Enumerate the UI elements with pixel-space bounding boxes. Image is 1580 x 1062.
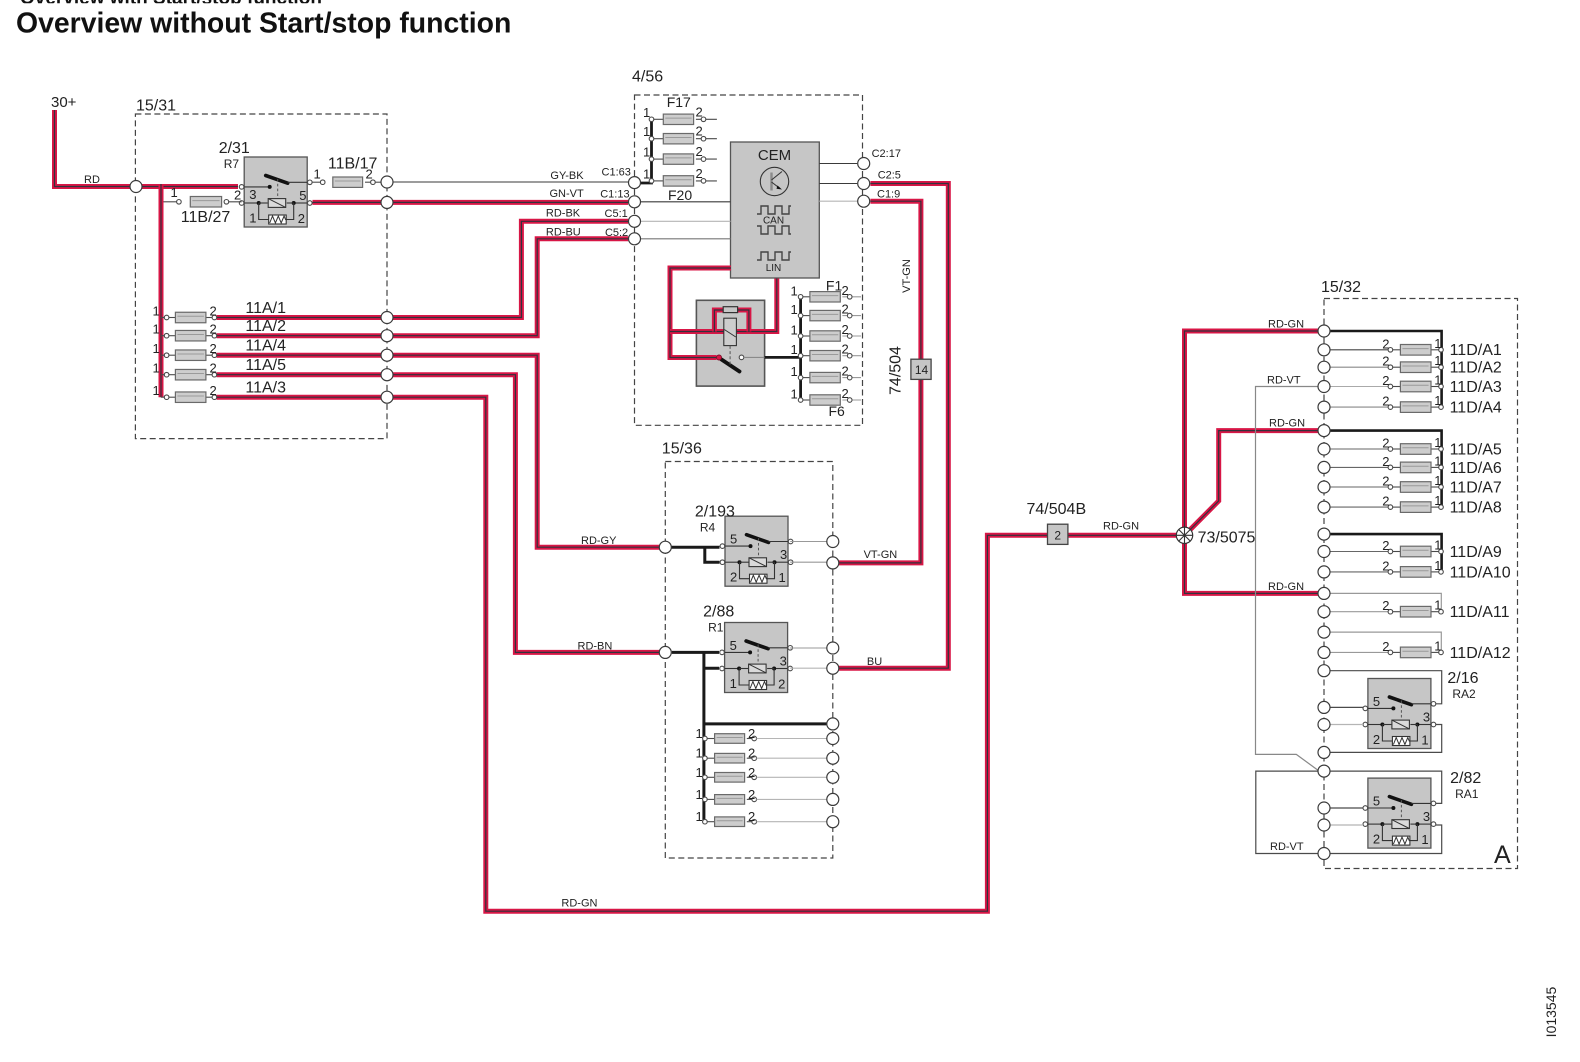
relay 2/193 R4 (720, 516, 793, 586)
svg-text:RD-GN: RD-GN (1268, 319, 1304, 331)
label RD-GY (581, 535, 617, 547)
connector 74/504B pin 2 (1027, 501, 1087, 545)
svg-text:I013545: I013545 (1543, 986, 1559, 1037)
node 15/32 left y771.1 (1318, 765, 1330, 777)
fuse 11D/A12 (1382, 638, 1443, 657)
fuse F1 (791, 283, 862, 302)
svg-text:1: 1 (643, 166, 650, 181)
svg-text:11B/27: 11B/27 (181, 209, 231, 226)
wire node to relay 2/16 pin 2 (1330, 724, 1363, 726)
svg-text:2: 2 (1382, 598, 1389, 613)
fuse 11D/A4 (1382, 393, 1443, 412)
label RD-BN (578, 641, 613, 653)
svg-text:2: 2 (1382, 474, 1389, 489)
wire fuse row 1 output to node (757, 738, 827, 740)
ignition switch (key switch) (696, 300, 764, 386)
central electronic module box 4/56 (632, 69, 863, 426)
label GN-VT (550, 188, 585, 200)
node 15/32 left y534.1 (1318, 528, 1330, 540)
fuse F18 (643, 124, 717, 144)
node 15/32 left y331 (1318, 325, 1330, 337)
svg-text:1: 1 (1434, 353, 1441, 368)
svg-text:11D/A1: 11D/A1 (1450, 342, 1502, 359)
node 15/32 left y752.4 (1318, 746, 1330, 758)
title (16, 8, 511, 40)
wire LIN line CEM to antenna (670, 279, 777, 332)
wire relay 2/16 pin 1 return (1330, 725, 1442, 753)
svg-text:2: 2 (210, 304, 217, 319)
label 2/31 (219, 140, 250, 171)
wire RD-BN node to relay 2/88 pins 5,1 and fuse bus (672, 652, 827, 821)
label F6 (829, 403, 846, 419)
fuse 11D/A6 (1382, 453, 1443, 472)
wire RD-GN junction to 11D/A11 (1185, 535, 1319, 593)
node 15/36 right y648 (827, 642, 839, 654)
svg-text:5: 5 (299, 188, 306, 203)
svg-text:2: 2 (1054, 528, 1061, 542)
svg-text:1: 1 (1434, 638, 1441, 653)
svg-text:2: 2 (748, 787, 755, 802)
label BU (867, 656, 882, 668)
wire RD-BU 11A/2 to CEM C5:2 (393, 239, 628, 336)
svg-text:1: 1 (1434, 393, 1441, 408)
wire fuse 11A/1 output (217, 315, 381, 320)
svg-text:1: 1 (314, 167, 321, 182)
svg-text:RD-BU: RD-BU (546, 227, 581, 239)
svg-text:2: 2 (696, 124, 703, 139)
label 11D/A10 (1450, 564, 1511, 581)
svg-text:5: 5 (1373, 794, 1380, 809)
svg-text:RD-VT: RD-VT (1267, 374, 1301, 386)
svg-text:15/31: 15/31 (136, 98, 176, 115)
svg-text:11D/A12: 11D/A12 (1450, 645, 1511, 662)
svg-text:1: 1 (696, 809, 703, 824)
wire fuse row 4 output to node (757, 798, 827, 800)
svg-text:1: 1 (791, 387, 798, 402)
fuse 11A/4 (153, 341, 217, 360)
label 11D/A12 (1450, 645, 1511, 662)
svg-text:2: 2 (696, 166, 703, 181)
node 15/36 right y758.2 (827, 752, 839, 764)
node RD-BN 15/36 (659, 646, 671, 658)
label RD-GN at 74/504B (1103, 521, 1139, 533)
svg-text:R7: R7 (224, 157, 240, 171)
svg-text:2/88: 2/88 (703, 604, 734, 621)
fuse 11D/A8 (1382, 493, 1443, 512)
node 15/32 left y430.6 (1318, 425, 1330, 437)
node 15/32 left y825 (1318, 819, 1330, 831)
wire node to fuse 11D/A4 (1330, 406, 1388, 408)
label VT-GN horizontal (864, 549, 898, 561)
svg-text:15/32: 15/32 (1321, 279, 1361, 296)
svg-text:3: 3 (249, 187, 256, 202)
wire relay 2/82 pin 1 return to RD-VT (1330, 825, 1442, 854)
svg-text:GN-VT: GN-VT (550, 188, 585, 200)
wire GN-VT relay 2/31 to CEM C1:13 (393, 200, 628, 205)
wire immobilizer antenna loop (714, 310, 749, 332)
label 11D/A7 (1450, 479, 1502, 496)
svg-text:1: 1 (791, 302, 798, 317)
svg-text:2: 2 (730, 570, 737, 585)
svg-text:2: 2 (1382, 373, 1389, 388)
svg-text:3: 3 (780, 653, 787, 668)
wire fuse 11A/2 output (217, 333, 381, 338)
svg-text:1: 1 (1434, 538, 1441, 553)
fuse F5 (791, 364, 862, 383)
wire bus to fuse 11A/3 (161, 396, 167, 398)
svg-text:2: 2 (1373, 732, 1380, 747)
svg-text:2: 2 (210, 322, 217, 337)
svg-text:C2:17: C2:17 (872, 148, 901, 160)
node 15/32 left y467.4 (1318, 461, 1330, 473)
svg-text:RD-BN: RD-BN (578, 641, 613, 653)
wire fuse 11A/4 output (217, 353, 381, 358)
node 15/32 left y652.4 (1318, 646, 1330, 658)
svg-text:1: 1 (1434, 493, 1441, 508)
label C5:2 (605, 227, 628, 239)
svg-text:1: 1 (1421, 832, 1428, 847)
node RD feed on 15/31 (130, 181, 142, 193)
fuse 11D/A1 (1382, 336, 1443, 355)
fuse 11A/1 (153, 304, 217, 323)
svg-text:C1:63: C1:63 (602, 167, 631, 179)
wire RD-GN junction to 11D/A1 group (1185, 331, 1319, 535)
label 2/82 (1450, 770, 1481, 801)
svg-text:Overview without Start/stop fu: Overview without Start/stop function (16, 8, 511, 40)
svg-text:30+: 30+ (51, 94, 77, 111)
wire relay 2/193 pin 1 to VT-GN node (790, 561, 827, 563)
svg-text:CEM: CEM (758, 147, 791, 164)
fuse F17 (643, 104, 717, 124)
node 15/32 left y349.8 (1318, 344, 1330, 356)
node 15/32 left y724.5 (1318, 719, 1330, 731)
node 4/56 left y182.6 (629, 177, 641, 189)
relay 2/31 R7 (239, 157, 312, 227)
fuse F19 (643, 144, 717, 164)
wire VT-GN CEM C1:9 via 74/504:14 to relay 2/193 output (839, 201, 921, 563)
module CEM (4/56) (731, 142, 820, 278)
wire node to relay 2/16 pin 3 (1330, 671, 1442, 704)
svg-text:11A/2: 11A/2 (245, 318, 286, 335)
svg-text:F1: F1 (826, 278, 843, 294)
wire bus to fuse 11A/5 (161, 374, 167, 376)
svg-text:RD-GN: RD-GN (1269, 418, 1305, 430)
fuse 11D/A7 (1382, 473, 1443, 492)
node 4/56 left y201.8 (629, 196, 641, 208)
wire fuse 11A/5 output (217, 372, 381, 377)
wire RD-GY node to relay 2/193 pins 5 and 2 (671, 547, 719, 562)
svg-text:1: 1 (696, 726, 703, 741)
svg-text:2/193: 2/193 (695, 503, 735, 520)
svg-text:2: 2 (842, 322, 849, 337)
svg-text:1: 1 (153, 341, 160, 356)
svg-text:2: 2 (696, 144, 703, 159)
label RD-GN group2 (1269, 418, 1305, 430)
svg-text:VT-GN: VT-GN (864, 549, 898, 561)
svg-text:2: 2 (298, 211, 305, 226)
svg-text:C5:2: C5:2 (605, 227, 628, 239)
svg-text:74/504B: 74/504B (1027, 501, 1087, 518)
node 15/32 left y487.0 (1318, 481, 1330, 493)
svg-text:F17: F17 (667, 94, 691, 110)
svg-text:2: 2 (1382, 336, 1389, 351)
svg-text:11D/A11: 11D/A11 (1450, 604, 1510, 621)
svg-text:C1:13: C1:13 (600, 188, 629, 200)
wire fuse row 5 output to node (757, 821, 827, 823)
svg-text:RD-GN: RD-GN (561, 898, 597, 910)
svg-text:C2:5: C2:5 (878, 170, 901, 182)
junction 73/5075 (1176, 527, 1255, 547)
label C1:13 (600, 188, 629, 200)
drawing id I013545 (1543, 986, 1559, 1037)
svg-text:RD-BK: RD-BK (546, 208, 581, 220)
svg-text:2: 2 (1382, 354, 1389, 369)
node 4/56 right y201.2 (858, 195, 870, 207)
svg-text:2: 2 (1382, 454, 1389, 469)
node RD-GY 15/36 (659, 541, 671, 553)
wire node to fuse 11D/A12 (1330, 651, 1388, 653)
svg-text:2/31: 2/31 (219, 140, 250, 157)
wire C1:13 to CEM (641, 201, 731, 203)
label RD-GN bottom (561, 898, 597, 910)
wire group bus 11D/A1-A4 (1330, 331, 1442, 407)
node 15/31 right y202.4 (381, 196, 393, 208)
relay 2/82 RA1 (1363, 778, 1436, 848)
label 11D/A8 (1450, 500, 1502, 517)
label C1:63 (602, 167, 631, 179)
wire bus to fuse 11A/2 (161, 335, 167, 337)
svg-text:1: 1 (696, 787, 703, 802)
wire node to fuse 11D/A2 (1330, 366, 1388, 368)
svg-text:3: 3 (1423, 709, 1430, 724)
wire group bus 11D/A5-A8 (1330, 431, 1442, 508)
node 15/32 left y853.5 (1318, 848, 1330, 860)
wire node to relay 2/82 pin 3 (1330, 771, 1442, 803)
svg-text:15/36: 15/36 (662, 441, 702, 458)
svg-text:BU: BU (867, 656, 882, 668)
fuse 11B/27 (164, 185, 242, 226)
node 15/32 left y507.1 (1318, 501, 1330, 513)
label VT-GN vertical (901, 259, 913, 293)
svg-text:2: 2 (210, 383, 217, 398)
label RD-VT top (1267, 374, 1301, 386)
svg-text:11D/A10: 11D/A10 (1450, 564, 1511, 581)
wire RD node to relay 2/31 pin 3 (142, 184, 238, 189)
wire C1:63 to fuse bus F17-F20 (641, 119, 652, 183)
fuse box 15/32 (1321, 279, 1518, 869)
svg-text:1: 1 (730, 676, 737, 691)
svg-text:LIN: LIN (766, 263, 782, 274)
svg-text:11D/A5: 11D/A5 (1450, 441, 1502, 458)
label 11A/1 (245, 300, 286, 317)
svg-text:11D/A2: 11D/A2 (1450, 360, 1502, 377)
svg-text:2: 2 (842, 283, 849, 298)
wire GN-VT relay 2/31 pin 2 to node (313, 200, 382, 205)
svg-text:11A/4: 11A/4 (245, 338, 286, 355)
node 15/36 right y668.2 (827, 662, 839, 674)
svg-text:2: 2 (842, 342, 849, 357)
wire RD-GY 11A/4 to relay 2/193 (393, 355, 660, 547)
fuse 11D/A10 (1382, 558, 1443, 577)
svg-text:2: 2 (696, 104, 703, 119)
svg-text:1: 1 (1434, 558, 1441, 573)
node 15/32 left y407.1 (1318, 401, 1330, 413)
svg-text:1: 1 (171, 185, 178, 200)
wire RD-GN junction to 11D/A5 group (1185, 431, 1319, 536)
svg-text:1: 1 (1434, 336, 1441, 351)
svg-text:RD: RD (84, 174, 100, 186)
node 15/32 left y632.1 (1318, 626, 1330, 638)
label F20 (668, 187, 692, 203)
svg-text:1: 1 (1434, 473, 1441, 488)
label C1:9 (877, 188, 900, 200)
node 15/32 left y593.4 (1318, 587, 1330, 599)
fuse F4 (791, 342, 862, 361)
svg-text:2: 2 (210, 361, 217, 376)
label 11A/3 (245, 380, 286, 397)
label F1 (826, 278, 843, 294)
label 11D/A5 (1450, 441, 1502, 458)
node 15/36 right y821.7 (827, 816, 839, 828)
node 15/31 right y182 (381, 176, 393, 188)
svg-text:RD-VT: RD-VT (1270, 841, 1304, 853)
svg-text:RA2: RA2 (1452, 687, 1476, 701)
svg-text:11A/1: 11A/1 (245, 300, 286, 317)
fuse F6 (791, 386, 862, 405)
wire node to relay 2/82 pin 5 (1330, 807, 1363, 809)
svg-text:11D/A6: 11D/A6 (1450, 460, 1502, 477)
node 15/32 left y670.7 (1318, 665, 1330, 677)
svg-text:11A/5: 11A/5 (245, 357, 286, 374)
node 15/31 right y397.2 (381, 391, 393, 403)
relay box 15/36 (662, 441, 833, 859)
node 15/36 right y723.9 (827, 718, 839, 730)
node 4/56 left y221.3 (629, 215, 641, 227)
net 30+ (51, 94, 77, 111)
label RD-BU (546, 227, 581, 239)
wire bus to fuse 11A/1 (161, 317, 167, 319)
svg-text:2: 2 (842, 386, 849, 401)
wire ignition switch output to fuses F1-F6 (765, 297, 801, 400)
svg-text:73/5075: 73/5075 (1198, 530, 1256, 547)
wire fuse row 3 output to node (757, 776, 827, 778)
svg-text:RD-GN: RD-GN (1268, 581, 1304, 593)
svg-text:1: 1 (696, 765, 703, 780)
wire header to 11D/A11 (1330, 593, 1441, 611)
label RD-BK (546, 208, 581, 220)
svg-text:14: 14 (915, 363, 929, 377)
svg-text:2: 2 (1382, 436, 1389, 451)
label GY-BK (550, 170, 584, 182)
label RD (84, 174, 100, 186)
svg-text:1: 1 (696, 746, 703, 761)
svg-text:11D/A4: 11D/A4 (1450, 400, 1502, 417)
fuse fuse row 4 in 15/36 (696, 787, 757, 804)
wire C5:2 to CEM (641, 238, 731, 240)
label RD-VT bottom (1270, 841, 1304, 853)
wire RD-GN 11A/3 to junction 73/5075 (393, 397, 1185, 911)
svg-text:2: 2 (1382, 494, 1389, 509)
label C2:17 (872, 148, 901, 160)
node 15/36 right y738.5 (827, 733, 839, 745)
node 15/36 right y777.3 (827, 771, 839, 783)
svg-text:2: 2 (1382, 394, 1389, 409)
svg-text:5: 5 (1373, 694, 1380, 709)
svg-text:2: 2 (210, 341, 217, 356)
svg-text:1: 1 (643, 105, 650, 120)
node 15/36 right y799.4 (827, 793, 839, 805)
label 11D/A9 (1450, 544, 1502, 561)
wire RD from 30+ battery feed (55, 110, 131, 187)
label A (1494, 841, 1511, 869)
svg-text:2: 2 (234, 188, 241, 203)
fuse 11A/2 (153, 322, 217, 341)
svg-text:RA1: RA1 (1455, 787, 1479, 801)
svg-text:1: 1 (1434, 435, 1441, 450)
label 11D/A3 (1450, 379, 1502, 396)
svg-text:2: 2 (842, 364, 849, 379)
svg-text:11D/A8: 11D/A8 (1450, 500, 1502, 517)
label 11D/A4 (1450, 400, 1502, 417)
fuse F3 (791, 322, 862, 341)
wire CEM to C1:9 (819, 200, 857, 202)
svg-text:A: A (1494, 841, 1511, 869)
wire node to fuse 11D/A1 (1330, 349, 1388, 351)
svg-text:2: 2 (1382, 558, 1389, 573)
wire group bus 11D/A9-A10 (1330, 534, 1442, 572)
fuse fuse row 5 in 15/36 (696, 809, 757, 826)
fuse box 15/31 (135, 98, 387, 439)
wire RD bus in 15/31 (159, 184, 164, 397)
node 15/32 left y386.5 (1318, 381, 1330, 393)
svg-text:3: 3 (1423, 809, 1430, 824)
cropped heading line (top sliver) (20, 0, 322, 9)
svg-text:R4: R4 (700, 520, 716, 534)
svg-text:1: 1 (791, 364, 798, 379)
svg-text:11D/A9: 11D/A9 (1450, 544, 1502, 561)
svg-text:F6: F6 (829, 403, 846, 419)
svg-text:2/82: 2/82 (1450, 770, 1481, 787)
node 15/31 right y374.7 (381, 369, 393, 381)
svg-text:74/504: 74/504 (888, 346, 905, 395)
node 15/31 right y355.2 (381, 349, 393, 361)
node 15/32 left y551.5 (1318, 546, 1330, 558)
label 11D/A6 (1450, 460, 1502, 477)
fuse 11D/A9 (1382, 538, 1443, 557)
wire RD-BN 11A/5 to relay 2/88 (393, 375, 660, 653)
wire RD CEM to ignition switch feed (670, 268, 731, 358)
node 15/32 left y367.2 (1318, 361, 1330, 373)
wire node to fuse 11D/A8 (1330, 506, 1388, 508)
svg-text:5: 5 (730, 532, 737, 547)
label 2/193 (695, 503, 735, 534)
wire node to fuse 11D/A5 (1330, 448, 1388, 450)
relay 2/88 R1 (720, 623, 793, 693)
svg-text:2: 2 (842, 302, 849, 317)
wire node to fuse 11D/A9 (1330, 551, 1388, 553)
ignition lock cylinder (717, 318, 737, 365)
label 2/16 (1447, 670, 1478, 701)
wire node to fuse 11D/A10 (1330, 571, 1388, 573)
svg-text:1: 1 (153, 383, 160, 398)
node 15/32 left y707.4 (1318, 701, 1330, 713)
wire bus to fuse 11A/4 (161, 354, 167, 356)
label C5:1 (605, 208, 628, 220)
svg-text:GY-BK: GY-BK (550, 170, 584, 182)
fuse fuse row 1 in 15/36 (696, 726, 757, 743)
wire node to fuse 11D/A6 (1330, 466, 1388, 468)
svg-text:5: 5 (730, 638, 737, 653)
